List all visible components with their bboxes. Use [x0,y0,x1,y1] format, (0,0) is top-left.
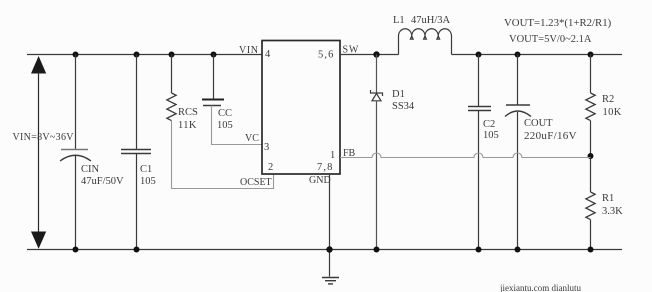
svg-text:10K: 10K [603,107,622,118]
wire RCS upper [171,55,173,94]
capacitor C2 [468,107,491,111]
svg-text:VOUT=1.23*(1+R2/R1): VOUT=1.23*(1+R2/R1) [504,17,612,29]
node junction bottom rail at COUT [515,247,521,253]
node junction SW at D1 [373,51,379,57]
svg-text:105: 105 [483,130,499,141]
wire FB line with crossover hops [340,153,591,158]
wire R1 lower [590,220,592,250]
ground [322,278,339,284]
svg-text:VOUT=5V/0~2.1A: VOUT=5V/0~2.1A [509,34,592,45]
svg-text:7,8: 7,8 [317,162,333,173]
svg-text:105: 105 [140,176,156,187]
svg-text:SS34: SS34 [392,101,415,112]
capacitor CC [202,100,224,106]
node junction top rail at CC [211,52,217,58]
wire R2 to FB node [590,121,592,192]
wire CC to VC pin [212,106,263,145]
wire CC upper [213,55,215,100]
svg-text:1: 1 [330,150,335,161]
wire SW node [340,54,399,56]
svg-text:220uF/16V: 220uF/16V [524,130,577,142]
svg-text:R2: R2 [602,94,614,105]
wire D1 lower [376,101,378,250]
wire C2 upper [478,55,480,107]
wire RCS to OCSET [172,121,274,189]
node junction top rail at CIN [73,52,79,58]
wire top rail left segment [27,54,262,56]
node junction top rail at C1 [134,52,140,58]
node junction bottom rail at CIN [73,247,79,253]
wire CIN lower [75,156,77,250]
diode D1 schottky [371,90,383,101]
op-amp U1 regulator IC box [262,41,340,175]
svg-text:CIN: CIN [81,164,100,175]
resistor RCS [167,93,176,121]
wire COUT upper [517,55,519,106]
node junction bottom rail at GND [326,246,332,252]
svg-text:GND: GND [309,175,331,186]
wire GND pin to rail [329,174,331,277]
svg-text:5,6: 5,6 [318,50,334,61]
wire bottom rail [27,249,622,251]
node junction bottom rail at C1 [134,247,140,253]
node junction FB divider [588,153,594,159]
svg-text:47uH/3A: 47uH/3A [411,15,451,26]
svg-text:VIN: VIN [239,45,259,56]
capacitor CIN (polarized) [60,150,91,162]
wire R2 upper [590,55,592,94]
svg-text:3.3K: 3.3K [602,206,623,217]
svg-text:VC: VC [245,133,259,144]
capacitor COUT (polarized) [505,105,531,117]
node junction top rail at R2 [588,52,594,58]
svg-text:2: 2 [268,162,273,173]
node junction bottom rail at D1 [374,247,380,253]
svg-text:jiexiantu.com dianlutu: jiexiantu.com dianlutu [499,283,581,292]
svg-text:D1: D1 [392,89,405,100]
svg-text:C2: C2 [483,119,495,130]
wire D1 upper [376,55,378,93]
wire C1 lower [136,154,138,250]
resistor R2 [586,93,595,121]
svg-text:11K: 11K [178,120,197,131]
svg-text:COUT: COUT [524,118,553,129]
node junction top rail at C2 [476,52,482,58]
node junction top rail at COUT [515,52,521,58]
svg-text:RCS: RCS [178,107,198,118]
wire CIN upper [75,55,77,150]
wire C1 upper [136,55,138,150]
wire COUT lower [517,112,519,250]
svg-text:OCSET: OCSET [240,177,272,188]
node junction bottom rail at C2 [476,247,482,253]
svg-text:CC: CC [218,108,232,119]
svg-text:VIN=8V~36V: VIN=8V~36V [13,132,75,143]
svg-text:47uF/50V: 47uF/50V [81,176,124,187]
svg-text:R1: R1 [602,193,614,204]
svg-text:3: 3 [264,142,269,153]
resistor R1 [586,192,595,220]
wire output rail [452,54,623,56]
inductor L1 [399,29,452,55]
node junction top rail at RCS [169,52,175,58]
capacitor C1 [121,150,151,154]
wire C2 lower [478,111,480,250]
svg-text:4: 4 [265,49,271,60]
node VIN input arrow (double-headed) [31,56,46,249]
node junction bottom rail at R1 [588,247,594,253]
svg-text:L1: L1 [393,15,405,26]
svg-text:C1: C1 [140,164,152,175]
svg-text:105: 105 [217,120,233,131]
